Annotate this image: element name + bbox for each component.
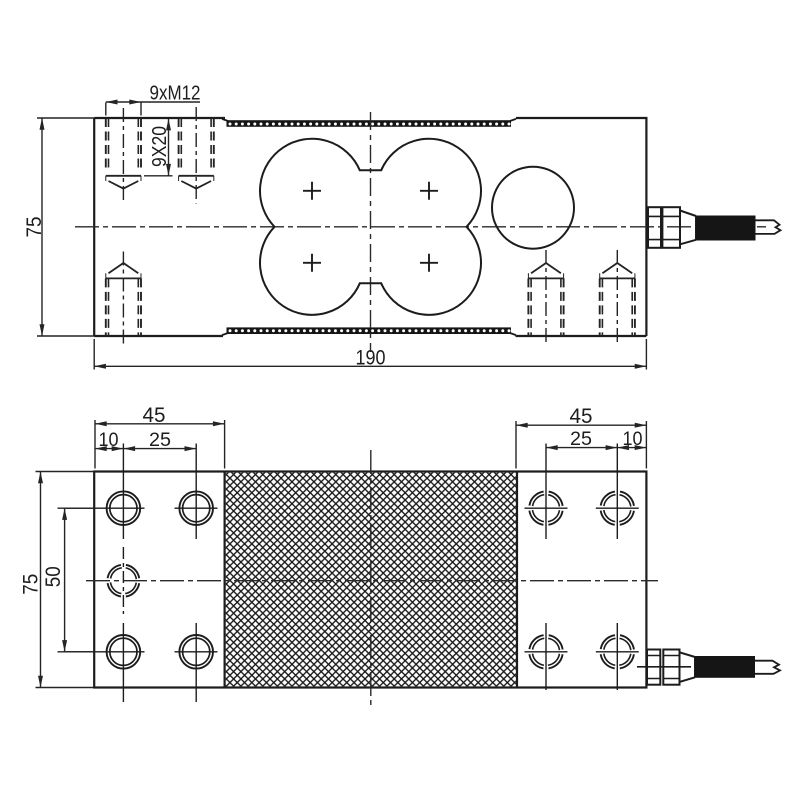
horizontal centerline side view [75,226,768,228]
bolt hole plan top-left2 [175,444,218,540]
cable side view [696,216,756,241]
bolt hole plan top-left [64,444,145,540]
bolt hole plan top-right (hidden) [525,444,568,540]
svg-text:25: 25 [570,428,592,450]
svg-text:10: 10 [623,428,643,450]
bolt hole plan bottom-right2 (hidden) [596,623,639,690]
dimension 75 plan view [36,472,95,688]
cable plan view [695,656,755,678]
cable end break side view [756,220,781,234]
threaded hole M12 top #2 [179,107,214,204]
dimension 75 side view [37,118,94,336]
threaded hole M12 top #1 [106,108,141,203]
body outline plan view [94,472,646,688]
svg-text:50: 50 [42,566,65,587]
dimension 25 right [546,447,617,449]
bolt hole plan bottom-left [64,623,145,702]
dimension 10 left [95,448,123,450]
svg-text:75: 75 [23,217,46,238]
dimension 9X20 [144,119,173,176]
cable gland side view [648,207,696,248]
svg-text:45: 45 [143,404,166,427]
dimension 50 [58,508,96,652]
svg-text:190: 190 [356,347,386,370]
body outline side view [94,118,646,336]
center cross marks of the 4 bores [303,182,438,272]
cable gland plan view [647,650,695,685]
clover cutout (4 overlapping bores) [260,139,481,315]
cable end break plan view [755,661,780,674]
svg-text:25: 25 [149,429,171,451]
threaded hole M12 bottom-left (drilled up) [106,252,141,346]
knurled band top edge [227,120,512,127]
horizontal centerline plan view [86,580,658,582]
dimension 190 [94,339,646,370]
svg-text:10: 10 [99,429,119,451]
dimension 45 left [95,420,225,469]
bolt hole plan bottom-left2 [175,623,218,702]
bolt hole plan bottom-right (hidden) [525,623,568,690]
svg-text:9xM12: 9xM12 [150,82,201,105]
dimension 9xM12 [106,102,200,116]
dimension 45 right [516,421,646,469]
vertical centerline side view [370,112,372,352]
svg-text:75: 75 [20,574,43,595]
knurled band bottom edge [227,327,512,334]
threaded hole M12 bottom-right #2 (drilled up) [600,250,635,345]
cable axis plan view [637,666,691,668]
bolt hole plan mid-left (hidden) [107,547,139,614]
single bore right [492,167,574,249]
svg-text:45: 45 [570,405,593,428]
dimension 25 left [123,448,196,450]
bolt hole plan top-right2 (hidden) [596,444,639,540]
knurled area crosshatch [226,473,516,687]
vertical centerline plan view [370,450,372,706]
dimension 10 right [617,447,646,449]
svg-text:9X20: 9X20 [148,126,171,167]
threaded hole M12 bottom-right #1 (drilled up) [528,250,563,345]
